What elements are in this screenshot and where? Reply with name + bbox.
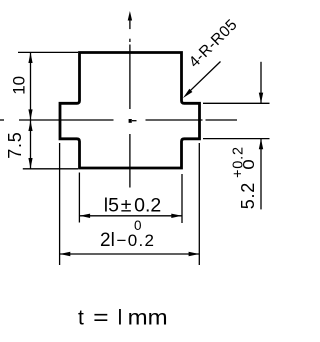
svg-text:t: t — [78, 307, 84, 330]
left dimension line x=30.5 — [30, 53, 32, 169]
15 left arrow — [80, 214, 91, 218]
svg-text:l: l — [118, 307, 123, 330]
15 dimension line y=215.8 — [79, 215, 182, 217]
svg-text:0: 0 — [241, 159, 258, 170]
svg-text:−0.2: −0.2 — [117, 231, 156, 250]
21 dim extension line right x=199.3 — [198, 143, 200, 265]
arrow down at centerline for 10 — [28, 109, 32, 120]
horizontal centerline — [0, 119, 237, 122]
svg-text:4-R-R05: 4-R-R05 — [186, 16, 241, 71]
left dimension extension line top (y=52.4) — [18, 51, 78, 53]
arrow down at bottom of 7.5 — [28, 158, 32, 169]
21 dimension line y=254 — [60, 253, 200, 255]
5.2 lower arrow pointing up — [259, 139, 263, 150]
vertical centerline — [129, 20, 131, 188]
svg-text:10: 10 — [9, 76, 28, 95]
15 dim extension line right x=182 — [181, 174, 183, 223]
svg-text:=: = — [93, 305, 109, 330]
arrow up at top of 10 — [28, 52, 32, 63]
5.2 dimension line upper segment x=261 — [260, 62, 262, 103]
21 right arrow — [189, 252, 200, 256]
15 right arrow — [171, 214, 182, 218]
leader line for 4-R-R05 — [187, 62, 221, 95]
svg-text:5.2: 5.2 — [238, 182, 258, 209]
top arrow of vertical centerline — [128, 11, 132, 21]
svg-text:l5±0.2: l5±0.2 — [104, 194, 161, 216]
5.2 upper arrow pointing down — [259, 93, 263, 104]
cross-shaped part outline — [60, 53, 200, 169]
svg-text:2l: 2l — [100, 230, 115, 251]
leader arrowhead — [183, 89, 192, 98]
left dimension extension line bottom (y=168.8) — [23, 168, 78, 170]
arrow up at centerline for 7.5 — [28, 120, 32, 131]
15 dim extension line left x=79.4 — [78, 173, 80, 223]
21 left arrow — [60, 252, 71, 256]
svg-text:7.5: 7.5 — [5, 131, 25, 158]
center dot — [129, 119, 132, 123]
5.2 bottom extension line y=138.6 — [203, 138, 270, 140]
svg-text:mm: mm — [128, 307, 168, 330]
21 dim extension line left x=59.6 — [59, 143, 61, 265]
5.2 top extension line y=103.3 — [203, 102, 270, 104]
5.2 dimension line lower segment — [260, 139, 262, 210]
